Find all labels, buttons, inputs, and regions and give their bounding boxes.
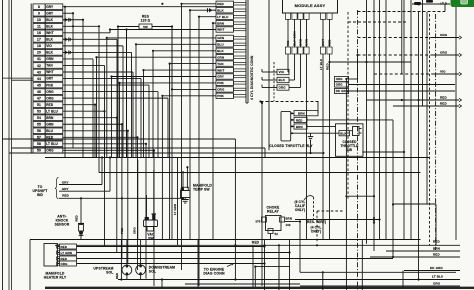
svg-text:WHT: WHT — [217, 68, 224, 72]
svg-text:20: 20 — [37, 51, 41, 55]
svg-text:11: 11 — [37, 25, 41, 29]
svg-text:RED: RED — [440, 101, 447, 105]
wire — [117, 27, 119, 158]
svg-text:RED: RED — [252, 241, 260, 245]
wire — [12, 79, 34, 81]
wire — [80, 198, 82, 223]
wire — [199, 16, 216, 18]
wire — [366, 0, 368, 244]
wire — [97, 56, 217, 58]
module assy — [283, 0, 338, 13]
svg-text:42: 42 — [37, 64, 41, 68]
svg-text:RED: RED — [61, 257, 68, 261]
svg-text:RED: RED — [440, 95, 447, 99]
svg-text:ORG: ORG — [61, 262, 69, 266]
diagnostic connector pin RED — [216, 1, 234, 6]
wire — [289, 240, 291, 290]
module connector — [285, 13, 290, 19]
svg-text:LT BLU: LT BLU — [319, 59, 323, 70]
svg-text:GRN: GRN — [305, 39, 309, 46]
svg-text:GRY: GRY — [62, 187, 69, 191]
svg-text:BRN: BRN — [286, 217, 292, 221]
wire — [300, 54, 302, 88]
svg-text:BLK: BLK — [46, 51, 53, 55]
svg-text:BLK: BLK — [46, 24, 53, 28]
wire dashed — [313, 197, 315, 220]
wire dash-dot boundary — [357, 10, 359, 290]
svg-text:BRN: BRN — [296, 125, 303, 129]
svg-text:ORG: ORG — [46, 149, 54, 153]
svg-text:PNK: PNK — [46, 83, 54, 87]
svg-text:54: 54 — [37, 116, 41, 120]
wire thick bottom — [45, 287, 474, 289]
svg-text:RED: RED — [74, 215, 78, 221]
svg-text:58: 58 — [37, 142, 41, 146]
wire dashed — [347, 12, 349, 200]
wire — [177, 158, 179, 245]
svg-text:BRN: BRN — [298, 112, 305, 116]
svg-text:GRY: GRY — [46, 11, 54, 15]
diagnostic connector pin BLU — [216, 42, 234, 47]
svg-text:102: 102 — [286, 223, 291, 227]
wire — [306, 54, 308, 240]
wire — [112, 76, 217, 78]
noise suppressor on pin 10 — [63, 19, 65, 21]
wire — [30, 239, 421, 241]
wire — [110, 29, 216, 31]
wire — [264, 240, 266, 290]
wire dashed — [429, 14, 431, 245]
wire — [329, 19, 331, 47]
svg-text:SENSOR: SENSOR — [55, 223, 70, 227]
connector pin 55 GRN — [33, 121, 45, 127]
wire — [63, 12, 73, 14]
svg-text:45: 45 — [37, 83, 41, 87]
svg-text:IND: IND — [37, 193, 44, 197]
wire — [197, 240, 199, 288]
connector pin 17 BLK — [33, 37, 45, 43]
connector pin 57 RED — [33, 135, 45, 141]
wire — [373, 0, 375, 251]
connector pin 46 ORG — [33, 89, 45, 95]
svg-text:TEMP SW: TEMP SW — [193, 188, 210, 192]
connector pin 10 BLK — [33, 17, 45, 23]
svg-text:52: 52 — [275, 232, 279, 236]
svg-text:HEATER RLY: HEATER RLY — [44, 276, 67, 280]
svg-text:MODULE ASSY: MODULE ASSY — [295, 3, 326, 8]
noise suppressor on pin 17 — [63, 38, 65, 40]
svg-text:BLK: BLK — [46, 18, 53, 22]
wire — [300, 271, 456, 273]
svg-text:17: 17 — [37, 38, 41, 42]
wire — [402, 271, 404, 288]
diagnostic connector pin BRN — [216, 20, 234, 25]
wire — [121, 198, 123, 239]
svg-text:ORG: ORG — [279, 86, 287, 90]
svg-text:ORG: ORG — [299, 38, 303, 46]
svg-text:LT GRN: LT GRN — [173, 204, 177, 215]
svg-text:(RES. WIRE): (RES. WIRE) — [306, 220, 326, 224]
ground — [310, 133, 312, 136]
svg-text:BLK: BLK — [46, 38, 53, 42]
svg-text:CLOSED THROTTLE RLY: CLOSED THROTTLE RLY — [269, 144, 313, 148]
connector pin 43 WHT — [33, 69, 45, 75]
wire — [294, 54, 296, 80]
svg-text:BLU: BLU — [217, 43, 224, 47]
svg-text:BLK GRN: BLK GRN — [293, 31, 297, 46]
wire — [379, 0, 381, 240]
wire — [426, 12, 428, 204]
connector pin 20 BLK — [33, 50, 45, 56]
svg-text:LT BLU: LT BLU — [432, 275, 443, 279]
wire — [285, 221, 301, 223]
svg-text:GRN: GRN — [217, 55, 224, 59]
svg-text:ORG: ORG — [133, 227, 137, 234]
svg-text:SOL: SOL — [149, 270, 156, 274]
wire — [190, 9, 216, 11]
junction — [426, 0, 433, 3]
wire — [9, 152, 323, 154]
svg-text:46: 46 — [37, 90, 41, 94]
wire — [63, 136, 138, 138]
diagnostic connector pin BLK — [216, 48, 234, 53]
wire — [2, 0, 4, 290]
badge — [451, 0, 474, 7]
wire — [182, 3, 217, 5]
wire — [412, 3, 450, 5]
wire — [63, 143, 146, 145]
svg-text:GRY: GRY — [46, 5, 54, 9]
wire — [63, 6, 216, 8]
wire — [161, 280, 163, 288]
svg-text:GRN: GRN — [46, 57, 54, 61]
svg-text:51: 51 — [37, 103, 41, 107]
wire — [3, 77, 34, 79]
diagnostic connector pin ORG — [216, 87, 234, 92]
svg-text:RED: RED — [296, 118, 303, 122]
svg-text:RELAY: RELAY — [267, 210, 279, 214]
svg-text:375: 375 — [255, 220, 260, 224]
junction — [316, 244, 318, 246]
svg-text:WHT: WHT — [46, 31, 54, 35]
wire — [63, 84, 149, 86]
svg-text:RED: RED — [328, 39, 332, 46]
wire — [287, 19, 289, 47]
svg-text:9: 9 — [38, 12, 40, 16]
wire — [268, 0, 270, 150]
svg-text:ONLY): ONLY) — [295, 208, 305, 212]
wire — [322, 19, 324, 47]
wire — [186, 167, 188, 188]
wire — [144, 69, 217, 71]
svg-text:GRN: GRN — [46, 122, 54, 126]
svg-text:SOL: SOL — [106, 271, 113, 275]
connector pin 53 LT BLU — [33, 108, 45, 114]
svg-text:PNK: PNK — [217, 94, 224, 98]
wire — [120, 82, 217, 84]
svg-text:4 CYL DIAGNOSTIC CONN: 4 CYL DIAGNOSTIC CONN — [250, 55, 254, 100]
wire — [63, 97, 168, 99]
wire — [171, 27, 173, 240]
wire — [234, 139, 236, 280]
anti-knock sensor — [78, 223, 84, 225]
svg-text:43: 43 — [37, 70, 41, 74]
wire — [63, 45, 123, 47]
svg-text:BLK: BLK — [279, 78, 286, 82]
svg-text:GRY: GRY — [217, 75, 224, 79]
connector pin 18 VIO — [33, 43, 45, 49]
wire dashed — [317, 210, 343, 212]
wire — [361, 240, 363, 290]
label ORG — [335, 82, 349, 87]
wire — [170, 63, 216, 65]
diagnostic connector pin LT BLU — [216, 14, 234, 19]
wire — [8, 0, 10, 290]
svg-text:ORG: ORG — [46, 96, 54, 100]
svg-text:59: 59 — [37, 149, 41, 153]
svg-text:47: 47 — [37, 96, 41, 100]
wire dashed — [316, 211, 318, 243]
connector pin 41 GRN — [33, 56, 45, 62]
wire — [63, 91, 158, 93]
wire — [153, 170, 155, 214]
wire — [182, 172, 184, 188]
wire — [261, 103, 263, 286]
wire — [295, 219, 380, 221]
switch vac sw — [144, 220, 158, 227]
connector pin 45 PNK — [33, 82, 45, 88]
wire — [137, 160, 139, 240]
svg-text:ORG: ORG — [440, 33, 448, 37]
wire — [63, 32, 110, 34]
wire — [29, 240, 31, 290]
svg-text:16: 16 — [37, 31, 41, 35]
connector pin 16 WHT — [33, 30, 45, 36]
svg-text:RED: RED — [46, 103, 54, 107]
wire — [63, 58, 93, 60]
junction — [414, 2, 421, 5]
svg-text:RED: RED — [62, 193, 69, 197]
svg-text:RED: RED — [433, 240, 440, 244]
wire — [63, 130, 128, 132]
wire — [287, 54, 289, 72]
svg-text:53: 53 — [37, 109, 41, 113]
diagnostic connector pin GRN — [216, 55, 234, 60]
wire ORG — [58, 263, 265, 265]
svg-text:5W: 5W — [143, 25, 148, 29]
svg-text:ORG: ORG — [217, 88, 225, 92]
wire — [63, 19, 83, 21]
wire — [255, 266, 289, 268]
wire — [63, 110, 105, 112]
wire — [55, 244, 230, 246]
wire dashed — [358, 11, 446, 13]
svg-text:LT GRN: LT GRN — [61, 251, 73, 255]
svg-text:55: 55 — [37, 123, 41, 127]
switch manifold temp sw — [181, 191, 191, 198]
switch closed throttle sw — [336, 124, 364, 157]
diagnostic connector pin WHT — [216, 67, 234, 72]
connector pin 58 LT BLU — [33, 141, 45, 147]
wire — [403, 0, 405, 240]
wire — [118, 279, 460, 281]
svg-text:GRY: GRY — [46, 77, 54, 81]
svg-text:8: 8 — [38, 5, 40, 9]
wire — [306, 19, 308, 47]
wire — [45, 157, 430, 159]
svg-text:10: 10 — [37, 18, 41, 22]
wire — [63, 117, 117, 119]
wire — [264, 148, 266, 158]
svg-text:BRN: BRN — [46, 116, 54, 120]
wire — [136, 43, 216, 45]
svg-text:VIO: VIO — [46, 44, 52, 48]
wire — [120, 240, 122, 280]
svg-text:WHT: WHT — [46, 70, 54, 74]
svg-text:DK GRN: DK GRN — [430, 266, 443, 270]
wire — [63, 38, 117, 40]
wire — [162, 95, 216, 97]
wire — [63, 25, 99, 27]
connector pin 8 GRY — [33, 4, 45, 10]
label BLK — [291, 132, 339, 134]
svg-text:56: 56 — [37, 129, 41, 133]
connector pin 54 BRN — [33, 115, 45, 121]
svg-text:18: 18 — [37, 44, 41, 48]
wire — [422, 0, 424, 106]
wire — [252, 245, 254, 287]
svg-text:TAN: TAN — [46, 64, 53, 68]
svg-text:BLU: BLU — [46, 129, 53, 133]
border — [455, 7, 457, 240]
wire — [107, 37, 216, 39]
svg-text:LT BLU: LT BLU — [46, 142, 58, 146]
svg-text:BRN: BRN — [217, 21, 224, 25]
wire — [3, 138, 236, 140]
diagnostic connector pin PNK — [216, 80, 234, 85]
diagnostic connector pin WHT — [216, 27, 234, 32]
wire — [12, 147, 266, 149]
svg-text:ORG: ORG — [46, 90, 54, 94]
svg-text:VIO: VIO — [279, 70, 285, 74]
svg-text:RED: RED — [433, 253, 440, 257]
wire — [63, 104, 95, 106]
svg-text:44: 44 — [37, 77, 41, 81]
connector pin 47 ORG — [33, 95, 45, 101]
label ORG — [335, 76, 349, 81]
svg-text:ORG: ORG — [336, 77, 344, 81]
relay manifold heater rly — [44, 244, 58, 267]
label BRN — [294, 124, 307, 129]
junction — [161, 3, 163, 5]
svg-text:ORG: ORG — [440, 50, 448, 54]
wire — [63, 51, 132, 53]
label BLK — [262, 79, 277, 81]
node left connector bracket — [30, 4, 32, 154]
svg-text:RED: RED — [115, 273, 119, 279]
wire RED — [58, 246, 265, 248]
wire — [185, 283, 300, 285]
label VIO — [262, 71, 277, 73]
noise suppressor on diagnostic pin BLK — [209, 8, 213, 12]
svg-text:BLK: BLK — [217, 49, 224, 53]
wire — [146, 195, 148, 217]
wire — [63, 71, 133, 73]
wire — [418, 12, 420, 279]
wire — [294, 19, 296, 47]
wire dashed — [261, 101, 320, 103]
junction — [72, 25, 74, 27]
svg-text:RED: RED — [217, 2, 224, 6]
svg-text:VIO: VIO — [440, 69, 446, 73]
wire — [99, 172, 421, 174]
label RED — [294, 117, 307, 122]
svg-text:GRN: GRN — [217, 36, 224, 40]
wire LT GRN — [58, 252, 290, 254]
wire — [270, 234, 272, 240]
svg-text:WHT: WHT — [321, 39, 325, 46]
wire — [444, 4, 446, 12]
wire — [385, 0, 387, 240]
wire — [63, 78, 141, 80]
wire — [345, 79, 347, 290]
relay choke relay — [266, 216, 282, 231]
svg-text:WHT: WHT — [217, 28, 224, 32]
svg-text:RED: RED — [326, 63, 330, 70]
diagnostic connector pin PNK — [216, 93, 234, 98]
svg-text:LT BLU: LT BLU — [46, 109, 58, 113]
wire RED — [58, 258, 394, 260]
connector pin 56 BLU — [33, 128, 45, 134]
label BRN — [294, 111, 318, 116]
wire — [357, 55, 359, 79]
connector pin 59 ORG — [33, 148, 45, 154]
diagnostic connector pin TAN — [216, 61, 234, 66]
wire — [63, 123, 122, 125]
svg-text:RED: RED — [61, 245, 68, 249]
connector pin 44 GRY — [33, 76, 45, 82]
connector pin 51 RED — [33, 102, 45, 108]
relay closed throttle rly — [281, 111, 291, 140]
svg-text:LT B: LT B — [441, 2, 448, 6]
svg-text:41: 41 — [37, 57, 41, 61]
svg-text:BRN: BRN — [433, 247, 440, 251]
module harness connector — [285, 47, 290, 54]
svg-text:LT BLU: LT BLU — [217, 15, 228, 19]
wire — [362, 151, 404, 153]
wire — [278, 245, 280, 290]
wire dash-dot — [435, 14, 437, 250]
diagnostic connector pin GRY — [216, 74, 234, 79]
solenoid upstream sol — [122, 265, 132, 275]
connector pin 9 GRY — [33, 10, 45, 16]
wire — [213, 22, 216, 24]
wire — [11, 0, 13, 290]
svg-text:BLK: BLK — [217, 8, 224, 12]
diagnostic connector pin BLK — [216, 8, 234, 13]
svg-text:PNK: PNK — [217, 81, 224, 85]
wire — [310, 141, 312, 154]
wire — [273, 62, 275, 101]
node 4 CYL DIAGNOSTIC CONN bus — [245, 0, 247, 103]
svg-text:ORG: ORG — [336, 83, 344, 87]
svg-text:ONLY): ONLY) — [311, 230, 321, 234]
solenoid downstream sol — [136, 265, 146, 275]
wire — [392, 120, 394, 257]
svg-text:VIO: VIO — [286, 40, 290, 46]
ground — [184, 198, 186, 200]
wire — [63, 149, 154, 151]
